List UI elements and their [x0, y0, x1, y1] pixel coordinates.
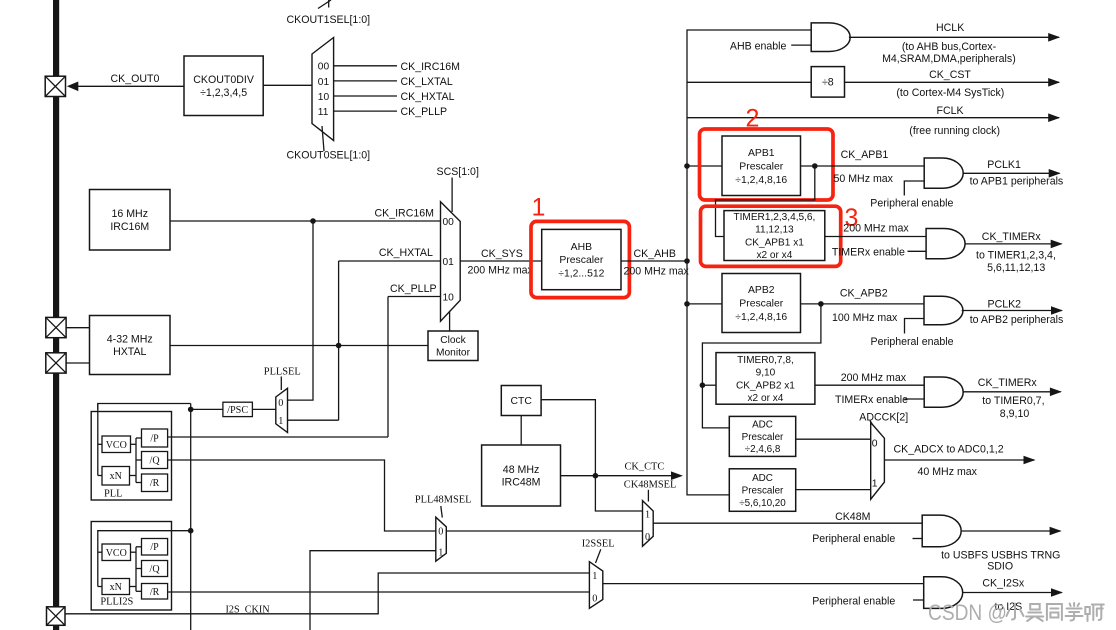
- svg-text:CTC: CTC: [511, 396, 533, 407]
- svg-text:VCO: VCO: [106, 548, 127, 559]
- label CK_ADCX: [894, 444, 1004, 456]
- arrow CK_ADCX: [1024, 456, 1036, 465]
- wire xN2 stub left: [98, 586, 102, 588]
- label CK_APB2: [840, 288, 888, 300]
- arrow CK_OUT0 into pin: [67, 82, 79, 92]
- wire VCO stub right: [131, 443, 137, 445]
- label I2S peripheral enable: [812, 595, 895, 607]
- svg-text:HCLK: HCLK: [936, 22, 964, 34]
- svg-text:01: 01: [318, 77, 330, 88]
- label I2SSEL input 0: [592, 593, 597, 604]
- pin HXTAL OSCOUT (crossed box): [46, 353, 66, 373]
- pin CKOUT0 (crossed box): [45, 76, 65, 96]
- svg-text:to APB2 peripherals: to APB2 peripherals: [970, 314, 1064, 326]
- svg-text:PCLK1: PCLK1: [987, 159, 1021, 171]
- svg-text:÷5,6,10,20: ÷5,6,10,20: [739, 498, 786, 509]
- and-gate TIMERx APB2: [924, 377, 963, 407]
- label to APB1 peripherals: [970, 176, 1064, 188]
- wire CK_APB1 wrap to TIMER1 mul: [716, 166, 815, 237]
- wire CK_SYS: [460, 260, 542, 262]
- label PLLSEL: [264, 366, 301, 377]
- svg-text:PLLSEL: PLLSEL: [264, 366, 301, 377]
- label SCS input 10: [443, 293, 455, 304]
- svg-text:CK_HXTAL: CK_HXTAL: [401, 91, 455, 103]
- svg-text:(free running clock): (free running clock): [909, 125, 1000, 137]
- svg-text:TIMERx enable: TIMERx enable: [835, 394, 908, 406]
- svg-text:PLL48MSEL: PLL48MSEL: [415, 494, 472, 505]
- svg-text:1: 1: [872, 479, 878, 490]
- label to TIMER1 dest line2: [987, 262, 1045, 274]
- pll PLL outer box: [91, 412, 171, 501]
- wire HXTAL tap vertical: [338, 261, 340, 420]
- annotation label 1: [532, 194, 546, 222]
- svg-text:16 MHz: 16 MHz: [112, 208, 149, 220]
- label SCS input 00: [443, 217, 455, 228]
- label I2SSEL input 1: [592, 571, 597, 582]
- wire CK_PLLI2SR to I2SSEL mux: [168, 591, 590, 593]
- label PLL48MSEL input 0: [438, 526, 443, 537]
- arrow HCLK: [1048, 33, 1060, 42]
- svg-text:Prescaler: Prescaler: [742, 432, 784, 443]
- svg-text:/P: /P: [150, 434, 159, 445]
- label CK_AHB 200 MHz max: [624, 266, 690, 278]
- wire CK_PLLP to SCS mux: [388, 296, 441, 298]
- svg-text:CK_CTC: CK_CTC: [625, 461, 665, 472]
- svg-text:CK_APB1 x1: CK_APB1 x1: [745, 237, 804, 248]
- annotation red box 1: [531, 221, 629, 297]
- svg-text:ADC: ADC: [752, 473, 773, 484]
- wire PCLK2 peripheral enable: [905, 319, 925, 334]
- svg-text:÷1,2,4,8,16: ÷1,2,4,8,16: [735, 312, 787, 323]
- svg-text:x2 or x4: x2 or x4: [756, 250, 792, 261]
- wire CTC to IRC48M: [520, 416, 522, 446]
- svg-text:9,10: 9,10: [756, 368, 776, 379]
- divider R PLLI2S: [142, 584, 168, 600]
- wire I2SSEL select: [596, 549, 601, 563]
- label PLL48MSEL input 1: [438, 547, 443, 558]
- svg-text:10: 10: [318, 92, 330, 103]
- svg-text:CK_HXTAL: CK_HXTAL: [379, 247, 433, 259]
- wire CK_CST out: [845, 81, 1060, 83]
- wire TIMER0 clock out: [815, 384, 924, 386]
- oscillator HXTAL: [90, 316, 171, 375]
- arrow CK_CST: [1048, 78, 1060, 87]
- svg-text:1: 1: [438, 547, 443, 558]
- wire bus to div8: [687, 81, 811, 83]
- block clock monitor: [428, 331, 478, 361]
- svg-text:10: 10: [443, 293, 455, 304]
- wire bus to APB2 prescaler: [687, 303, 722, 305]
- wire Q2 stub: [136, 568, 142, 570]
- wire CKOUT0SEL select: [322, 126, 324, 151]
- label CK_TIMERx 1: [982, 231, 1042, 243]
- wire PCLK1 out: [963, 172, 1060, 174]
- svg-text:5,6,11,12,13: 5,6,11,12,13: [987, 262, 1045, 274]
- svg-text:2: 2: [746, 105, 760, 133]
- svg-text:CK_APB2: CK_APB2: [840, 288, 888, 300]
- wire CK_APB2: [801, 303, 925, 305]
- svg-text:8,9,10: 8,9,10: [1000, 408, 1030, 420]
- arrow PCLK2: [1051, 306, 1063, 315]
- label CK48MSEL input 0: [645, 532, 650, 543]
- svg-text:01: 01: [443, 257, 455, 268]
- svg-text:Prescaler: Prescaler: [559, 255, 603, 266]
- svg-text:CK_APB2 x1: CK_APB2 x1: [736, 380, 795, 391]
- svg-text:(to AHB bus,Cortex-: (to AHB bus,Cortex-: [902, 41, 997, 53]
- svg-text:11: 11: [318, 107, 329, 118]
- wire stub CK_IRC16M to CKOUT0 mux: [334, 65, 397, 67]
- wire TIMERx enable stub 2: [904, 398, 924, 400]
- wire xN stub left: [98, 475, 102, 477]
- wire I2S peripheral enable stub: [913, 599, 924, 601]
- mux I2SSEL: [589, 562, 602, 609]
- svg-text:50 MHz max: 50 MHz max: [834, 173, 894, 185]
- svg-text:APB1: APB1: [748, 148, 775, 159]
- label PLLI2S: [100, 597, 133, 608]
- svg-text:CKOUT0DIV: CKOUT0DIV: [193, 74, 255, 86]
- svg-text:AHB enable: AHB enable: [730, 41, 787, 53]
- svg-text:÷2,4,6,8: ÷2,4,6,8: [745, 444, 781, 455]
- label CK_APB2 100 MHz max: [832, 312, 898, 324]
- svg-text:CK_LXTAL: CK_LXTAL: [401, 76, 453, 88]
- arrow FCLK: [1048, 113, 1060, 122]
- wire IRC16M tap down to PLLSEL: [288, 221, 314, 400]
- junction CK_APB2 tap: [818, 301, 824, 307]
- label CK_SYS 200 MHz max: [468, 265, 534, 277]
- wire bus to APB1 prescaler: [687, 165, 722, 167]
- and-gate CK_I2Sx enable: [924, 577, 963, 609]
- annotation label 3: [845, 204, 859, 232]
- block xN PLLI2S: [102, 579, 130, 595]
- watermark CSDN: [928, 600, 1104, 625]
- wire junction to PLL top: [98, 404, 191, 410]
- svg-text:200 MHz max: 200 MHz max: [468, 265, 534, 277]
- svg-text:÷1,2...512: ÷1,2...512: [558, 269, 604, 280]
- svg-text:/Q: /Q: [150, 456, 161, 467]
- label to TIMER0 dest line1: [982, 395, 1044, 407]
- wire TIMER1 clock out: [825, 236, 926, 238]
- svg-text:200 MHz max: 200 MHz max: [624, 266, 690, 278]
- wire VCO2 stub right: [131, 551, 137, 553]
- label TIMER0 200 MHz max: [841, 372, 907, 384]
- label PLL48MSEL: [415, 494, 472, 505]
- wire CK48M out: [653, 522, 922, 524]
- svg-text:CK_PLLP: CK_PLLP: [390, 283, 437, 295]
- junction PLL feed: [188, 407, 194, 413]
- svg-text:HXTAL: HXTAL: [113, 346, 146, 358]
- svg-text:CK_TIMERx: CK_TIMERx: [982, 231, 1042, 243]
- label CK_AHB: [634, 248, 676, 260]
- label mux input 01: [318, 77, 330, 88]
- junction CK_APB1 tap: [812, 163, 818, 169]
- wire P stub: [136, 437, 142, 439]
- svg-text:CK_SYS: CK_SYS: [481, 248, 523, 260]
- wire CK_APB2 wrap to TIMER0/ADC: [702, 304, 821, 428]
- svg-text:x2 or x4: x2 or x4: [747, 393, 783, 404]
- label PCLK1 peripheral enable: [870, 197, 953, 209]
- svg-text:xN: xN: [110, 471, 122, 482]
- label I2SSEL: [582, 538, 615, 549]
- label SCS input 01: [443, 257, 455, 268]
- divider PSC: [223, 402, 253, 416]
- and-gate TIMERx APB1: [926, 229, 965, 259]
- mux PLL48MSEL: [436, 517, 447, 561]
- mux CKOUT1SEL (cropped at top): [318, 0, 331, 9]
- wire R stub: [136, 482, 142, 484]
- label to TIMER0 dest line2: [1000, 408, 1030, 420]
- svg-text:CK_TIMERx: CK_TIMERx: [978, 377, 1038, 389]
- wire stub CK_PLLP to CKOUT0 mux: [334, 110, 397, 112]
- block CTC: [501, 386, 541, 416]
- svg-text:÷8: ÷8: [822, 77, 834, 89]
- label CK_CTC: [625, 461, 665, 472]
- wire PLLI2S mid rail: [135, 547, 137, 592]
- wire xN stub right: [130, 475, 137, 477]
- block VCO: [102, 436, 131, 453]
- and-gate PCLK1: [924, 158, 963, 188]
- wire CK_PLLP vertical: [387, 297, 389, 438]
- label CKOUT0SEL[1:0]: [287, 150, 371, 162]
- svg-text:ADCCK[2]: ADCCK[2]: [859, 412, 908, 424]
- svg-text:CK_IRC16M: CK_IRC16M: [401, 61, 460, 73]
- svg-text:0: 0: [645, 532, 650, 543]
- block VCO PLLI2S: [102, 544, 131, 561]
- svg-text:AHB: AHB: [571, 242, 592, 253]
- and-gate PCLK2: [924, 296, 963, 325]
- svg-text:FCLK: FCLK: [937, 105, 964, 117]
- label to TIMER1 dest line1: [976, 249, 1056, 261]
- wire stub CK_LXTAL to CKOUT0 mux: [334, 80, 397, 82]
- wire CTC loop: [541, 400, 642, 511]
- svg-text:/PSC: /PSC: [227, 405, 248, 416]
- arrow CK_TIMERx 2: [1050, 388, 1062, 397]
- wire Q stub: [136, 459, 142, 461]
- svg-text:4-32 MHz: 4-32 MHz: [107, 333, 153, 345]
- label TIMERx enable 2: [835, 394, 908, 406]
- wire xN2 stub right: [130, 586, 137, 588]
- divider CKOUT0DIV: [184, 56, 263, 116]
- label PLL: [104, 489, 122, 500]
- prescaler APB2: [722, 274, 801, 333]
- svg-text:÷1,2,3,4,5: ÷1,2,3,4,5: [200, 87, 247, 99]
- wire chip boundary bus (thick vertical line): [53, 0, 59, 630]
- svg-text:to TIMER0,7,: to TIMER0,7,: [982, 395, 1044, 407]
- svg-text:CKOUT0SEL[1:0]: CKOUT0SEL[1:0]: [287, 150, 371, 162]
- label HCLK dest line2: [882, 53, 1016, 65]
- wire CK_PLLQ route to PLL48MSEL: [168, 460, 436, 531]
- svg-text:I2S_CKIN: I2S_CKIN: [226, 605, 271, 616]
- svg-text:0: 0: [872, 438, 878, 449]
- wire PLLSEL select: [280, 377, 282, 391]
- arrow I2S: [1051, 588, 1063, 597]
- junction CK_IRC16M tap: [310, 218, 316, 224]
- svg-text:200 MHz max: 200 MHz max: [843, 223, 909, 235]
- wire PLL mid rail: [135, 438, 137, 483]
- svg-text:Prescaler: Prescaler: [739, 161, 783, 172]
- label CK_PLLP stub: [401, 106, 448, 118]
- annotation label 2: [746, 105, 760, 133]
- wire PLLI2S input: [98, 531, 191, 587]
- prescaler ADC 2468: [729, 416, 795, 456]
- svg-text:Prescaler: Prescaler: [742, 486, 784, 497]
- svg-text:CK48MSEL: CK48MSEL: [624, 480, 677, 491]
- mux ADCCK: [871, 423, 885, 500]
- wire I2S out: [963, 592, 1062, 594]
- wire stub CK_HXTAL to CKOUT0 mux: [334, 95, 397, 97]
- wire HXTAL tap to PLLSEL input 1: [288, 419, 339, 421]
- label CKOUT1SEL[1:0]: [287, 14, 371, 26]
- label CK_PLLP: [390, 283, 437, 295]
- label CK_CST: [929, 69, 971, 81]
- label SCS[1:0]: [437, 166, 479, 178]
- mux SCS: [441, 202, 461, 322]
- wire CK_HXTAL to SCS mux: [339, 260, 441, 262]
- junction IRC48M tap: [593, 473, 599, 479]
- svg-text:00: 00: [443, 217, 455, 228]
- label AHB enable: [730, 41, 787, 53]
- svg-text:VCO: VCO: [106, 440, 127, 451]
- svg-text:CK_OUT0: CK_OUT0: [111, 73, 160, 85]
- wire I2S clock out: [603, 583, 924, 585]
- wire HCLK out: [849, 36, 1059, 38]
- wire PSC to junction: [191, 408, 223, 410]
- svg-text:to APB1 peripherals: to APB1 peripherals: [970, 176, 1064, 188]
- divider Q PLLI2S: [142, 561, 168, 577]
- arrow PCLK1: [1049, 169, 1061, 178]
- label PCLK2: [988, 299, 1022, 311]
- block xN: [102, 467, 130, 486]
- svg-text:0: 0: [438, 526, 443, 537]
- label CK_IRC16M stub: [401, 61, 460, 73]
- oscillator IRC48M: [482, 445, 561, 506]
- divider Q: [142, 452, 168, 469]
- svg-text:CSDN @: CSDN @: [928, 600, 1007, 625]
- label HCLK: [936, 22, 964, 34]
- wire pin to HXTAL top: [66, 327, 89, 329]
- svg-text:0: 0: [278, 398, 283, 409]
- wire FCLK: [687, 117, 1059, 119]
- wire SCS select: [451, 178, 453, 213]
- junction TIMER0 tap: [700, 382, 706, 388]
- label CK_I2Sx: [982, 577, 1025, 589]
- wire VCO stub left: [98, 443, 102, 445]
- wire CKOUT0DIV input: [263, 84, 312, 86]
- svg-text:ADC: ADC: [752, 420, 773, 431]
- label ADCCK input 0: [872, 438, 878, 449]
- label CK48MSEL input 1: [645, 510, 650, 521]
- svg-text:11,12,13: 11,12,13: [755, 225, 794, 236]
- wire ADC1 out to mux: [796, 438, 871, 440]
- label PLLSEL input 1: [278, 416, 283, 427]
- svg-text:Peripheral enable: Peripheral enable: [812, 533, 895, 545]
- label HCLK dest line1: [902, 41, 997, 53]
- svg-text:1: 1: [278, 416, 283, 427]
- svg-text:Peripheral enable: Peripheral enable: [870, 197, 953, 209]
- svg-text:40 MHz max: 40 MHz max: [918, 466, 978, 478]
- pll PLLI2S outer box: [91, 522, 171, 611]
- label PLLSEL input 0: [278, 398, 283, 409]
- wire CK48MSEL select: [647, 490, 649, 502]
- wire PLL48MSEL input1: [310, 551, 436, 630]
- junction CK_AHB joins bus: [684, 258, 690, 264]
- label to APB2 peripherals: [970, 314, 1064, 326]
- wire VCO2 stub left: [98, 551, 102, 553]
- label to I2S: [995, 601, 1023, 613]
- label TIMER1 200 MHz max: [843, 223, 909, 235]
- junction APB2 tap: [684, 301, 690, 307]
- svg-text:CK48M: CK48M: [835, 511, 870, 523]
- wire TIMERx enable stub 1: [908, 250, 927, 252]
- wire PLL48MSEL select: [441, 506, 443, 518]
- pin HXTAL OSCIN (crossed box): [46, 317, 66, 337]
- label ADCCK[2]: [859, 412, 908, 424]
- wire pin to HXTAL bottom: [66, 362, 89, 364]
- divider P PLLI2S: [142, 539, 168, 556]
- label CK_LXTAL stub: [401, 76, 453, 88]
- label PCLK1: [987, 159, 1021, 171]
- divider div8: [811, 67, 844, 98]
- wire CK_OUT0: [77, 85, 185, 87]
- svg-text:CK_IRC16M: CK_IRC16M: [375, 208, 434, 220]
- prescaler ADC 561020: [729, 469, 795, 512]
- wire CK_HXTAL to clock monitor: [170, 345, 428, 347]
- divider R: [142, 474, 168, 492]
- label CK_IRC16M: [375, 208, 434, 220]
- label mux input 10: [318, 92, 330, 103]
- pin I2S_CKIN (crossed box): [47, 607, 66, 626]
- label mux input 11: [318, 107, 329, 118]
- svg-text:CK_APB1: CK_APB1: [841, 149, 889, 161]
- label PCLK2 peripheral enable: [871, 336, 954, 348]
- arrow CK_CTC: [671, 471, 683, 480]
- svg-text:IRC48M: IRC48M: [502, 477, 541, 489]
- multiplier TIMER1 group: [724, 211, 825, 262]
- wire SCS mux to clock monitor: [449, 311, 451, 331]
- svg-text:Peripheral enable: Peripheral enable: [812, 595, 895, 607]
- svg-text:1: 1: [645, 510, 650, 521]
- label CK_SYS: [481, 248, 523, 260]
- wire CK_TIMERx out 2: [963, 391, 1061, 393]
- label FCLK note: [909, 125, 1000, 137]
- annotation red box 2: [700, 129, 834, 200]
- wire USB peripheral enable stub: [913, 538, 923, 540]
- svg-text:1: 1: [532, 194, 546, 222]
- mux CK48MSEL: [643, 501, 654, 547]
- svg-text:PLLI2S: PLLI2S: [100, 597, 133, 608]
- svg-text:CK_CST: CK_CST: [929, 69, 971, 81]
- label USB peripheral enable: [812, 533, 895, 545]
- prescaler AHB: [542, 229, 621, 289]
- label SDIO: [987, 561, 1013, 573]
- svg-text:100 MHz max: 100 MHz max: [832, 312, 898, 324]
- svg-text:00: 00: [318, 62, 330, 73]
- wire PCLK1 peripheral enable: [904, 181, 924, 196]
- svg-text:CK_AHB: CK_AHB: [634, 248, 676, 260]
- svg-text:CK_PLLP: CK_PLLP: [401, 106, 448, 118]
- junction APB1 tap: [684, 163, 690, 169]
- svg-text:TIMER1,2,3,4,5,6,: TIMER1,2,3,4,5,6,: [733, 212, 815, 223]
- label TIMERx enable 1: [832, 246, 905, 258]
- svg-text:48 MHz: 48 MHz: [503, 464, 540, 476]
- wire CK_AHB: [621, 260, 687, 262]
- label CK_CST dest: [896, 87, 1004, 99]
- label CK_HXTAL: [379, 247, 433, 259]
- mux CKOUT0SEL: [312, 38, 334, 141]
- svg-text:M4,SRAM,DMA,peripherals): M4,SRAM,DMA,peripherals): [882, 53, 1016, 65]
- wire CK_APB1: [801, 165, 925, 167]
- wire PLL feed rail vertical: [190, 404, 192, 630]
- svg-text:TIMERx enable: TIMERx enable: [832, 246, 905, 258]
